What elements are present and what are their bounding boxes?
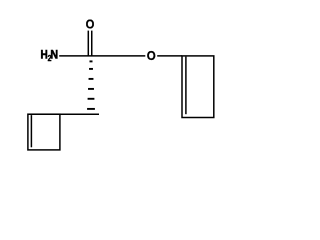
bond O to ring (right) (157, 55, 182, 57)
right cyclobutene ring (182, 56, 214, 118)
bottom ring inner double-bond line (30, 115, 32, 147)
bond N-C to C-O (main chain) (59, 55, 145, 57)
carbonyl C=O double bond (87, 31, 89, 56)
svg-text:N: N (50, 49, 58, 62)
bottom-left cyclobutene ring (28, 114, 60, 150)
amine label H2N (41, 49, 59, 63)
svg-text:H: H (41, 49, 48, 62)
right ring inner double-bond line (185, 57, 187, 115)
svg-text:O: O (86, 16, 95, 31)
svg-text:O: O (147, 48, 156, 63)
hashed wedge bond (stereo) (87, 60, 95, 109)
bond from bottom ring to wedge carbon (28, 113, 99, 115)
